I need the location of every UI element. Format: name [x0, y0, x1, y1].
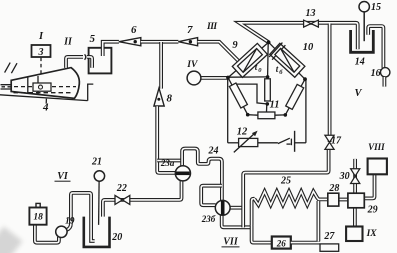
break marks (inlet shaft) [5, 63, 17, 74]
wire to slide resistor right [275, 114, 285, 116]
vessel 5 [89, 48, 112, 74]
wire center tap [266, 104, 268, 112]
diffuser section lines [28, 76, 38, 95]
flowmeter 23a [175, 166, 190, 181]
label 11 [270, 99, 280, 110]
ground line under diffuser [0, 84, 93, 101]
label 22 [116, 183, 127, 194]
wire left node down [227, 78, 229, 143]
node A (top node) [267, 40, 271, 44]
label 8 [166, 93, 172, 105]
wire to galvanometer IV [201, 76, 228, 80]
node resistor 11 bottom [266, 102, 270, 106]
box 27 [320, 244, 339, 251]
bulb 15 [359, 2, 369, 12]
leader line to 4 [45, 99, 47, 104]
svg-text:VII: VII [223, 237, 239, 248]
svg-text:III: III [206, 22, 217, 32]
wire stepped tap [234, 84, 267, 104]
wire bottom loop left [228, 142, 239, 144]
bulb 21 [94, 171, 104, 181]
label 10 [303, 42, 314, 53]
wire 12 to switch [258, 142, 278, 144]
label IV [186, 60, 198, 70]
svg-text:5: 5 [90, 33, 96, 45]
wire up to gas line [316, 201, 320, 241]
svg-text:13: 13 [306, 8, 316, 19]
slide resistor [258, 112, 275, 119]
wire left node to resistor 11 top [228, 76, 268, 78]
valve 13 [304, 20, 319, 27]
label 13 [306, 8, 316, 19]
valve 17 [325, 135, 334, 149]
label II [63, 37, 73, 48]
node slide left [246, 113, 250, 117]
bubbler 19 [56, 226, 67, 237]
svg-text:23а: 23а [160, 158, 175, 168]
pipe 29 down to box IX [353, 208, 357, 227]
box 18 [29, 203, 46, 224]
label IX [366, 229, 378, 239]
pipe valve 17 to long run and down to 23b junction [243, 149, 328, 227]
resistor 11 [265, 79, 271, 101]
pipe vessel5 to ejector 6 [103, 42, 119, 56]
coil 25 (heat exchanger) [254, 191, 327, 205]
sensor 4 box [33, 83, 51, 91]
label 12 [237, 127, 248, 138]
label 4 [42, 102, 49, 114]
branch pipe down to 8 [159, 42, 163, 89]
top pipe from node through valve 13 into vessel 14 [239, 23, 358, 49]
branch pipe to trap loop [157, 159, 181, 163]
svg-text:IV: IV [186, 60, 198, 70]
wire bottom-left arm [228, 78, 248, 115]
label 23a [160, 158, 175, 168]
box 3 (sensor unit) [32, 45, 51, 57]
vessel 14 (thermostat) [351, 30, 374, 52]
svg-text:14: 14 [355, 57, 365, 68]
inlet shaft lines [1, 85, 13, 89]
gauge 16 [381, 68, 390, 77]
svg-text:27: 27 [323, 231, 335, 242]
label 5 [90, 33, 96, 45]
wire to slide resistor left [248, 114, 258, 117]
label 14 [355, 57, 365, 68]
branch pipe to 16 and into vessel 14 [368, 26, 383, 68]
ejector 6 [119, 38, 141, 46]
label 7 [187, 24, 193, 36]
svg-text:I: I [38, 31, 44, 42]
left node [226, 76, 230, 80]
wire 26 to 27 [291, 241, 320, 245]
svg-text:6: 6 [131, 24, 137, 36]
label 23b [201, 214, 216, 224]
svg-text:IX: IX [366, 229, 378, 239]
svg-text:12: 12 [237, 127, 248, 138]
label 19 [65, 217, 75, 227]
resistor bottom-right [286, 84, 304, 109]
svg-text:9: 9 [232, 40, 238, 51]
probe pipe into vessel 5 [87, 57, 92, 68]
pipe 8 down to flowmeter 23a [157, 106, 175, 173]
label 21 [91, 157, 102, 168]
svg-text:29: 29 [367, 204, 378, 215]
wire arm right (node A to right node) [269, 42, 305, 79]
battery [291, 131, 294, 152]
svg-text:3: 3 [38, 47, 44, 58]
label 6 [131, 24, 137, 36]
svg-text:21: 21 [91, 157, 102, 168]
label VI [55, 171, 71, 182]
probe joint mark [85, 54, 86, 60]
svg-text:0: 0 [258, 67, 262, 74]
svg-text:11: 11 [270, 99, 280, 110]
svg-text:20: 20 [111, 232, 122, 243]
pipe down to valve 17 [328, 24, 332, 143]
svg-text:10: 10 [303, 42, 314, 53]
svg-text:22: 22 [116, 183, 127, 194]
svg-text:28: 28 [328, 183, 339, 194]
svg-text:25: 25 [280, 175, 291, 186]
label III [206, 22, 217, 32]
svg-text:23б: 23б [201, 214, 216, 224]
svg-text:VIII: VIII [368, 142, 385, 152]
galvanometer IV [187, 71, 201, 85]
box 29 [348, 193, 364, 208]
rheostat 12 [239, 138, 258, 146]
svg-text:II: II [63, 37, 73, 48]
ejector 7 [178, 38, 197, 46]
pipe 28 to 29 [339, 198, 348, 202]
node slide right [284, 113, 288, 117]
svg-text:8: 8 [166, 93, 172, 105]
bypass loop at 23b [201, 186, 222, 206]
sampling probe pipe II [66, 57, 83, 68]
box 28 [328, 193, 339, 206]
wire arm left (node A to left node) [228, 42, 269, 77]
wire riser to box 26 [252, 226, 272, 243]
wire node A down to resistor 11 [267, 42, 270, 77]
pipe 29 to box VIII [364, 175, 374, 199]
label 24 [208, 146, 219, 157]
label 26 [276, 238, 287, 248]
svg-text:16: 16 [371, 68, 381, 79]
valve 30 [351, 169, 360, 184]
thermometer 21 stem [98, 181, 101, 225]
svg-text:24: 24 [208, 146, 219, 157]
svg-text:26: 26 [276, 238, 287, 248]
svg-text:V: V [354, 88, 362, 99]
label 3 [38, 47, 44, 58]
svg-text:VI: VI [57, 171, 69, 182]
wire battery to right [295, 142, 306, 144]
trap loops 24 (double siphon) [182, 149, 222, 201]
node resistor 11 top [266, 75, 270, 79]
label 15 [371, 2, 381, 13]
svg-text:19: 19 [65, 217, 75, 227]
svg-text:30: 30 [339, 171, 350, 182]
right node [303, 77, 307, 81]
svg-text:17: 17 [331, 135, 342, 146]
svg-text:4: 4 [42, 102, 49, 114]
diffuser body (engine exhaust cone) [11, 68, 79, 99]
dashed link 3-4 [40, 58, 42, 77]
label I [38, 31, 44, 42]
label VIII [368, 142, 385, 152]
svg-text:15: 15 [371, 2, 381, 13]
valve 22 [115, 195, 130, 204]
label 16 [371, 68, 381, 79]
vessel 20 [84, 217, 110, 247]
label 25 [280, 175, 291, 186]
measuring cell 9 (chamber with resistor) [232, 43, 267, 77]
label V [354, 88, 362, 99]
label VII [222, 237, 240, 248]
flowmeter 23b [215, 200, 230, 215]
rheostat 12 arrow [234, 131, 258, 153]
box 26 [272, 237, 291, 249]
label 27 [323, 231, 335, 242]
label t0 [255, 62, 262, 74]
smudge [0, 226, 23, 253]
label tb [276, 64, 284, 76]
label 9 [232, 40, 238, 51]
box VIII [368, 159, 387, 175]
pipe 18 to 19 [35, 224, 59, 243]
gauge 16 stem [382, 77, 386, 87]
resistor bottom-left [229, 83, 247, 108]
pipe 23b right link [230, 206, 244, 210]
label 30 [339, 171, 350, 182]
label 17 [331, 135, 342, 146]
label 18 [33, 213, 43, 223]
pipe 19 riser into vessel 20 [67, 193, 95, 241]
wire bottom-right arm [285, 79, 305, 115]
svg-text:18: 18 [33, 213, 43, 223]
svg-text:7: 7 [187, 24, 193, 36]
pipe 23a to valve 22 and into vessel 20 [100, 181, 182, 226]
comparison cell 10 [268, 42, 306, 79]
pipe vent through valve 30 [353, 159, 357, 194]
label 29 [367, 204, 378, 215]
thermometer 15 stem [363, 12, 365, 41]
label 28 [328, 183, 339, 194]
switch [278, 138, 291, 144]
label 20 [111, 232, 122, 243]
wire right node down [305, 79, 307, 143]
svg-text:б: б [279, 69, 283, 76]
centerline dashes [14, 87, 77, 93]
box IX [346, 227, 362, 242]
pipe 7 to analyzer chamber (III line) [198, 42, 240, 63]
filter 8 [154, 88, 164, 106]
pipe 6 to 7 [141, 40, 179, 44]
pipe 23b bottom run to coil riser [222, 199, 255, 228]
